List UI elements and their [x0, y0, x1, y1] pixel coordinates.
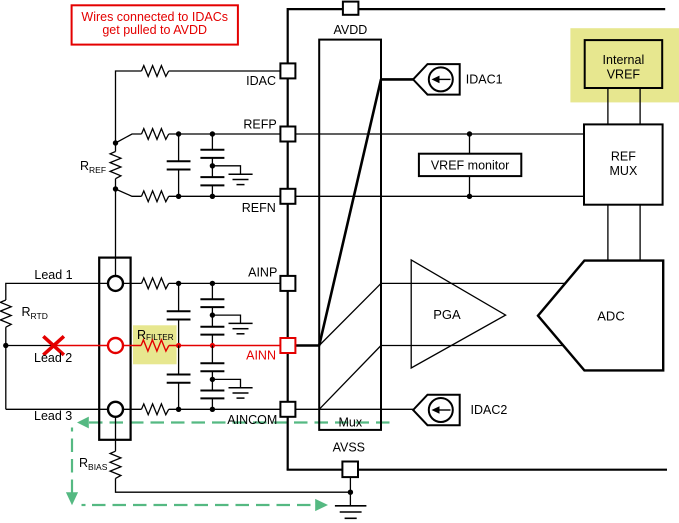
- junction Lead2 tap: [3, 343, 8, 348]
- svg-text:RBIAS: RBIAS: [79, 456, 108, 472]
- svg-text:RRTD: RRTD: [22, 305, 48, 321]
- junction REF cm mid: [210, 163, 215, 168]
- pin AVSS: [333, 441, 365, 477]
- svg-text:Wires connected to IDACs: Wires connected to IDACs: [81, 10, 228, 24]
- wire Lead3: [6, 408, 108, 410]
- wire Lead3 to RBIAS: [115, 417, 117, 451]
- pin AINP: [248, 266, 295, 291]
- junction RREF bottom: [113, 186, 118, 191]
- wire REFN to REF MUX: [295, 195, 584, 197]
- VREF monitor block: [419, 134, 521, 196]
- green current path arrow left (IDAC2 to lead3): [77, 417, 393, 429]
- svg-text:REF: REF: [611, 150, 636, 164]
- svg-text:REFP: REFP: [243, 118, 276, 132]
- terminal Lead1 circle: [108, 276, 123, 291]
- wire Lead2 black part: [6, 345, 54, 347]
- wire Lead3 to AINCOM resistor: [123, 408, 142, 410]
- svg-text:VREF monitor: VREF monitor: [431, 158, 510, 172]
- svg-text:AVDD: AVDD: [333, 23, 367, 37]
- junction RREF top: [113, 140, 118, 145]
- capacitor AINP common-mode: [200, 283, 224, 315]
- svg-text:Lead 1: Lead 1: [34, 268, 72, 282]
- svg-text:RREF: RREF: [80, 159, 106, 175]
- wire RREF to connector: [115, 189, 117, 276]
- wire VREF to REF MUX right: [639, 88, 641, 124]
- wire REF MUX to ADC right: [639, 205, 641, 261]
- current source IDAC1: [413, 64, 460, 95]
- mux route AINCOM to PGA bottom: [319, 346, 381, 410]
- wire PGA input top: [381, 282, 566, 284]
- wire AVSS pin to ground: [349, 477, 351, 506]
- highlight RFILTER: [133, 325, 177, 364]
- broken-wire X mark: [43, 336, 64, 355]
- wire resistor to IDAC pin: [169, 70, 281, 72]
- svg-text:AINN: AINN: [246, 349, 276, 363]
- wire AVSS rail (chip bottom border): [287, 469, 667, 471]
- svg-text:get pulled to AVDD: get pulled to AVDD: [102, 23, 207, 37]
- capacitor AINP-AINN differential: [167, 283, 191, 345]
- svg-text:AINP: AINP: [248, 266, 277, 280]
- pin IDAC: [246, 63, 295, 87]
- wire AINP caps to pin: [169, 282, 281, 284]
- capacitor AINN common-mode top: [200, 315, 224, 345]
- wire AINCOM to IDAC2: [295, 408, 413, 410]
- green current path down: [66, 428, 78, 506]
- capacitor REFP common-mode: [200, 134, 224, 166]
- pin AINCOM: [227, 402, 295, 427]
- junction AINN cm cap red: [210, 343, 215, 348]
- wire PGA input bottom: [381, 345, 566, 347]
- wire AINN red to pin: [169, 345, 281, 347]
- op-amp PGA: [411, 260, 505, 368]
- svg-text:IDAC2: IDAC2: [471, 403, 508, 417]
- wire VREF to REF MUX left: [607, 88, 609, 124]
- svg-text:IDAC1: IDAC1: [466, 72, 503, 86]
- ground REF cm: [212, 166, 252, 185]
- wire REFP to REF MUX: [295, 133, 584, 135]
- resistor RBIAS: [110, 451, 121, 478]
- junction AINN diff cap red: [176, 343, 181, 348]
- chip left+top border: [288, 9, 666, 470]
- terminal Lead3 circle: [108, 402, 123, 417]
- resistor RFILTER red: [141, 340, 169, 351]
- capacitor REFN common-mode: [200, 166, 224, 197]
- svg-text:Lead 3: Lead 3: [34, 409, 72, 423]
- svg-text:ADC: ADC: [597, 309, 624, 324]
- junction REFP diff cap: [176, 131, 181, 136]
- ground AVSS: [335, 506, 367, 519]
- connector RTD terminal block: [99, 258, 130, 440]
- junction AINCOM cm cap: [210, 407, 215, 412]
- svg-text:MUX: MUX: [610, 164, 638, 178]
- capacitor AINN-AINCOM differential: [167, 346, 191, 410]
- pin REFN: [242, 189, 296, 215]
- svg-text:Internal: Internal: [603, 53, 645, 67]
- wire IDAC pullup: [116, 71, 142, 143]
- resistor RREF: [110, 143, 121, 189]
- REF MUX block: [584, 124, 663, 204]
- svg-text:Mux: Mux: [338, 416, 362, 430]
- resistor REFP filter: [142, 129, 169, 140]
- wire REF MUX to ADC left: [607, 205, 609, 261]
- wire RREF to REFP: [116, 134, 142, 143]
- terminal Lead2 circle: [108, 338, 123, 353]
- resistor REFN filter: [142, 191, 169, 202]
- svg-text:AVSS: AVSS: [333, 441, 365, 455]
- capacitor REF differential: [167, 134, 191, 196]
- junction AINP cm cap: [210, 281, 215, 286]
- wire Lead1: [6, 283, 108, 300]
- green current path right (to AVSS ground): [82, 499, 329, 511]
- current source IDAC2: [413, 395, 460, 426]
- wire RREF to REFN: [116, 189, 142, 196]
- resistor AINP filter: [142, 278, 169, 289]
- highlight Internal VREF: [570, 28, 679, 102]
- junction REFP cm cap: [210, 131, 215, 136]
- svg-text:VREF: VREF: [607, 68, 641, 82]
- wire RRTD to Lead3: [5, 327, 7, 409]
- resistor AINCOM filter: [142, 404, 169, 415]
- resistor RRTD: [0, 300, 11, 327]
- wire REFN caps to pin: [169, 195, 281, 197]
- junction REFN-VREFmon: [467, 194, 472, 199]
- capacitor AINCOM common-mode: [200, 379, 224, 409]
- ground AIN cm top: [212, 315, 252, 334]
- svg-text:PGA: PGA: [433, 307, 461, 322]
- ground AIN cm bottom: [212, 379, 252, 398]
- pin AVDD: [333, 2, 367, 37]
- svg-text:AINCOM: AINCOM: [227, 413, 277, 427]
- wire Lead2 to RFILTER red: [123, 345, 141, 347]
- pin REFP: [243, 118, 295, 142]
- wire AINCOM caps to pin: [169, 408, 281, 410]
- junction REFP-VREFmon: [467, 131, 472, 136]
- mux route AINN to PGA top: [319, 283, 381, 345]
- junction AIN cm mid top: [210, 312, 215, 317]
- wire REFP caps to pin: [169, 133, 281, 135]
- note box: [72, 5, 238, 44]
- junction AVSS ground: [348, 490, 353, 495]
- junction AINCOM diff cap: [176, 407, 181, 412]
- svg-text:IDAC: IDAC: [246, 74, 276, 88]
- wire RBIAS to AVSS node: [116, 478, 351, 492]
- Internal VREF block: [585, 40, 663, 88]
- junction AIN cm mid bottom: [210, 377, 215, 382]
- junction AINP diff cap: [176, 281, 181, 286]
- wire Lead2 red part: [54, 345, 108, 347]
- wire IDAC1 route (AINN pin to mux) thick: [295, 79, 413, 345]
- svg-text:REFN: REFN: [242, 201, 276, 215]
- junction REFN diff cap: [176, 194, 181, 199]
- capacitor AINN common-mode bottom: [200, 346, 224, 380]
- ADC block: [538, 261, 663, 371]
- junction REFN cm cap: [210, 194, 215, 199]
- pin AINN: [246, 338, 295, 363]
- mux block: [319, 40, 381, 430]
- wire Lead1 to AINP resistor: [123, 282, 142, 284]
- resistor idac line: [142, 66, 169, 77]
- svg-text:Lead 2: Lead 2: [34, 351, 72, 365]
